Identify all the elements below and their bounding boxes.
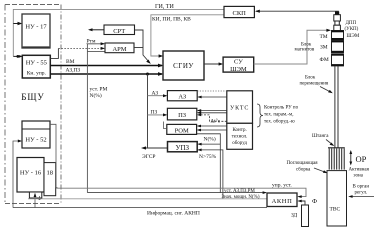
wire arrow into НУ-17 xyxy=(13,23,21,25)
svg-text:ДПП: ДПП xyxy=(346,21,357,26)
svg-text:ОР: ОР xyxy=(356,154,367,164)
svg-text:Штанга: Штанга xyxy=(312,134,329,139)
svg-text:УКТС: УКТС xyxy=(230,106,249,112)
wire УКТС to ПЗ arrow 2 xyxy=(198,112,227,114)
svg-text:НУ - 16: НУ - 16 xyxy=(20,170,42,177)
block СУ ШЭМ xyxy=(223,57,254,72)
svg-text:технол.: технол. xyxy=(232,134,248,139)
block СРТ xyxy=(104,25,135,35)
svg-text:Знач. мощн. N(%): Знач. мощн. N(%) xyxy=(222,195,260,200)
wire into УПЗ lower from vertB xyxy=(198,150,223,199)
БЩУ dash-dot boundary xyxy=(5,5,61,204)
svg-text:ЗД: ЗД xyxy=(291,213,297,219)
wire Row2 уст.АЗ,ПЗ,РМ bus xyxy=(87,192,265,194)
svg-text:АРМ: АРМ xyxy=(112,46,126,53)
svg-text:НУ - 52: НУ - 52 xyxy=(25,137,46,144)
svg-text:ШЭМ: ШЭМ xyxy=(230,66,247,73)
wire РОМ N(%) down to bus xyxy=(197,134,221,193)
svg-text:Контр.: Контр. xyxy=(232,128,246,133)
svg-text:ГИ, ТИ: ГИ, ТИ xyxy=(155,4,174,10)
svg-text:СРТ: СРТ xyxy=(113,28,125,35)
svg-text:N(%): N(%) xyxy=(204,136,216,143)
block АЗ xyxy=(167,91,197,101)
wire Row1 упр.уст. bus xyxy=(56,188,306,196)
wire СРТ right elbow to ВМ line xyxy=(135,30,150,63)
block СГИУ xyxy=(163,51,204,80)
svg-text:Контроль РУ по: Контроль РУ по xyxy=(264,106,299,111)
block УПЗ xyxy=(168,142,198,152)
wire УКТС to АЗ arrow xyxy=(198,96,226,98)
svg-text:сборка: сборка xyxy=(296,168,311,173)
magnet ЗМ xyxy=(332,41,344,53)
wire Контр to РОМ arrow 2 xyxy=(198,129,227,131)
svg-text:Активная: Активная xyxy=(349,168,370,173)
block НУ-16 xyxy=(17,158,44,193)
svg-text:ТВС: ТВС xyxy=(330,207,341,213)
svg-text:тех. оборуд.-ю: тех. оборуд.-ю xyxy=(264,120,295,125)
connector ДПП plug xyxy=(335,12,339,15)
wire ЗД to АКНП xyxy=(299,201,305,205)
wire branch into ПЗ xyxy=(148,114,167,116)
svg-text:уст. АЗ,ПЗ,РМ: уст. АЗ,ПЗ,РМ xyxy=(224,189,255,194)
wire Ртм from НУ-55 to АРМ xyxy=(50,48,58,58)
wire НУ-16 input arrows xyxy=(34,194,36,208)
wire Row4 информ.сиг. bus xyxy=(13,207,267,209)
svg-text:РОМ: РОМ xyxy=(175,128,189,135)
svg-text:ЗМ: ЗМ xyxy=(320,45,328,51)
svg-text:18: 18 xyxy=(47,170,54,177)
svg-text:N>75%: N>75% xyxy=(199,154,217,160)
svg-text:регул.: регул. xyxy=(355,191,368,196)
svg-text:Δt°с: Δt°с xyxy=(211,118,221,125)
magnet ТМ xyxy=(332,31,344,40)
wire АЗ,ПЗ thick line НУ-55 to СГИУ xyxy=(50,73,162,75)
svg-text:Ф: Ф xyxy=(312,198,317,205)
svg-text:АКНП: АКНП xyxy=(272,198,293,205)
block Контр.технол.оборуд xyxy=(227,123,253,149)
svg-text:СУ: СУ xyxy=(234,59,243,66)
wire НУ-52 input from bottom bus xyxy=(13,141,21,208)
block ТВС xyxy=(327,171,347,226)
block НУ-17 xyxy=(22,14,50,48)
wire ПЗ-РОМ elbow xyxy=(164,122,167,129)
absorber assembly hatched xyxy=(329,149,344,170)
svg-text:КИ, ПИ, ПВ, КВ: КИ, ПИ, ПВ, КВ xyxy=(152,16,191,22)
wire into УПЗ upper xyxy=(198,143,220,145)
svg-text:магнитов: магнитов xyxy=(295,48,315,53)
block ПЗ xyxy=(167,108,196,120)
svg-text:БЩУ: БЩУ xyxy=(21,92,45,102)
wire СРТ left stub arrow xyxy=(90,29,105,31)
svg-text:В орган: В орган xyxy=(353,185,370,190)
svg-text:зона: зона xyxy=(354,174,364,179)
svg-text:АЗ: АЗ xyxy=(178,94,186,101)
svg-text:тех. парам.-м,: тех. парам.-м, xyxy=(264,113,293,118)
svg-text:упр. уст.: упр. уст. xyxy=(272,182,292,188)
wire АРМ right to elbow xyxy=(134,47,143,49)
wire УКТС to ПЗ arrow 1 xyxy=(198,110,227,112)
svg-text:уст. РМ: уст. РМ xyxy=(90,87,108,93)
НУ-16 pedestal xyxy=(29,192,41,198)
svg-text:ПЗ: ПЗ xyxy=(151,110,158,116)
block РОМ xyxy=(167,124,197,134)
svg-text:СКП: СКП xyxy=(233,10,247,17)
block НУ-52 xyxy=(22,121,50,148)
svg-text:ШЭМ: ШЭМ xyxy=(347,34,360,39)
svg-text:ТМ: ТМ xyxy=(320,34,328,40)
wire СГИУ to СУ ШЭМ xyxy=(204,63,222,65)
svg-text:(УКП): (УКП) xyxy=(345,27,359,32)
block УКТС xyxy=(227,91,253,124)
wire from ДПП to СКП xyxy=(256,11,338,14)
svg-text:ВМ: ВМ xyxy=(66,59,75,65)
svg-text:Блок: Блок xyxy=(305,76,316,81)
svg-text:N(%): N(%) xyxy=(90,92,102,99)
svg-text:оборуд: оборуд xyxy=(232,141,247,146)
wire Δt°c dashed into ПЗ xyxy=(198,115,227,121)
svg-text:СГИУ: СГИУ xyxy=(173,62,194,70)
magnet ФМ xyxy=(332,54,344,66)
wire drive rod xyxy=(334,66,336,148)
block СКП xyxy=(224,6,254,17)
absorber assembly top plate xyxy=(328,147,345,149)
wire vertical bus to АЗ/ПЗ formers xyxy=(147,74,149,148)
wire Контр to РОМ arrow 1 xyxy=(198,125,227,127)
wire ГИ,ТИ from СКП to БЩУ xyxy=(13,9,224,56)
svg-text:ФМ: ФМ xyxy=(320,57,329,63)
svg-text:НУ - 55: НУ - 55 xyxy=(26,60,47,67)
block АРМ xyxy=(105,43,134,53)
wire АЗ dotted to УКТС xyxy=(197,90,227,92)
svg-text:УПЗ: УПЗ xyxy=(176,144,190,152)
block 18 xyxy=(44,163,56,196)
block НУ-55 xyxy=(22,55,50,78)
svg-text:НУ - 17: НУ - 17 xyxy=(25,24,47,31)
wire КИ,ПИ,ПВ,КВ from СКП to СГИУ xyxy=(151,15,224,56)
wire Row3 Знач.мощн. bus xyxy=(28,198,267,200)
svg-text:перемещения: перемещения xyxy=(300,82,329,87)
svg-text:АЗ,ПЗ: АЗ,ПЗ xyxy=(66,67,81,73)
wire АРМ down-line to bottom bus xyxy=(86,44,88,193)
svg-text:ЭГСР: ЭГСР xyxy=(142,154,155,160)
wire НУ-52 output down to bus xyxy=(50,124,58,188)
wire ЭГСР output xyxy=(143,147,168,149)
wire branch into АЗ xyxy=(148,95,167,97)
brace УКТС annotation xyxy=(257,104,263,127)
svg-text:Поглощающая: Поглощающая xyxy=(287,161,319,166)
block АКНП xyxy=(267,193,297,207)
node ОР label with double arrow xyxy=(350,152,352,165)
svg-text:Кн. упр.: Кн. упр. xyxy=(27,71,47,77)
svg-text:ПЗ: ПЗ xyxy=(178,112,186,119)
wire into НУ-55 with junction dot xyxy=(13,55,21,57)
wire СУ ШЭМ to ШЭМ drive xyxy=(254,30,330,64)
wire ВМ thick line НУ-55 to СГИУ xyxy=(50,65,162,67)
svg-text:АЗ: АЗ xyxy=(152,91,159,97)
svg-text:Информац. сиг. АКНП: Информац. сиг. АКНП xyxy=(147,210,200,217)
block ЗД xyxy=(302,205,309,227)
